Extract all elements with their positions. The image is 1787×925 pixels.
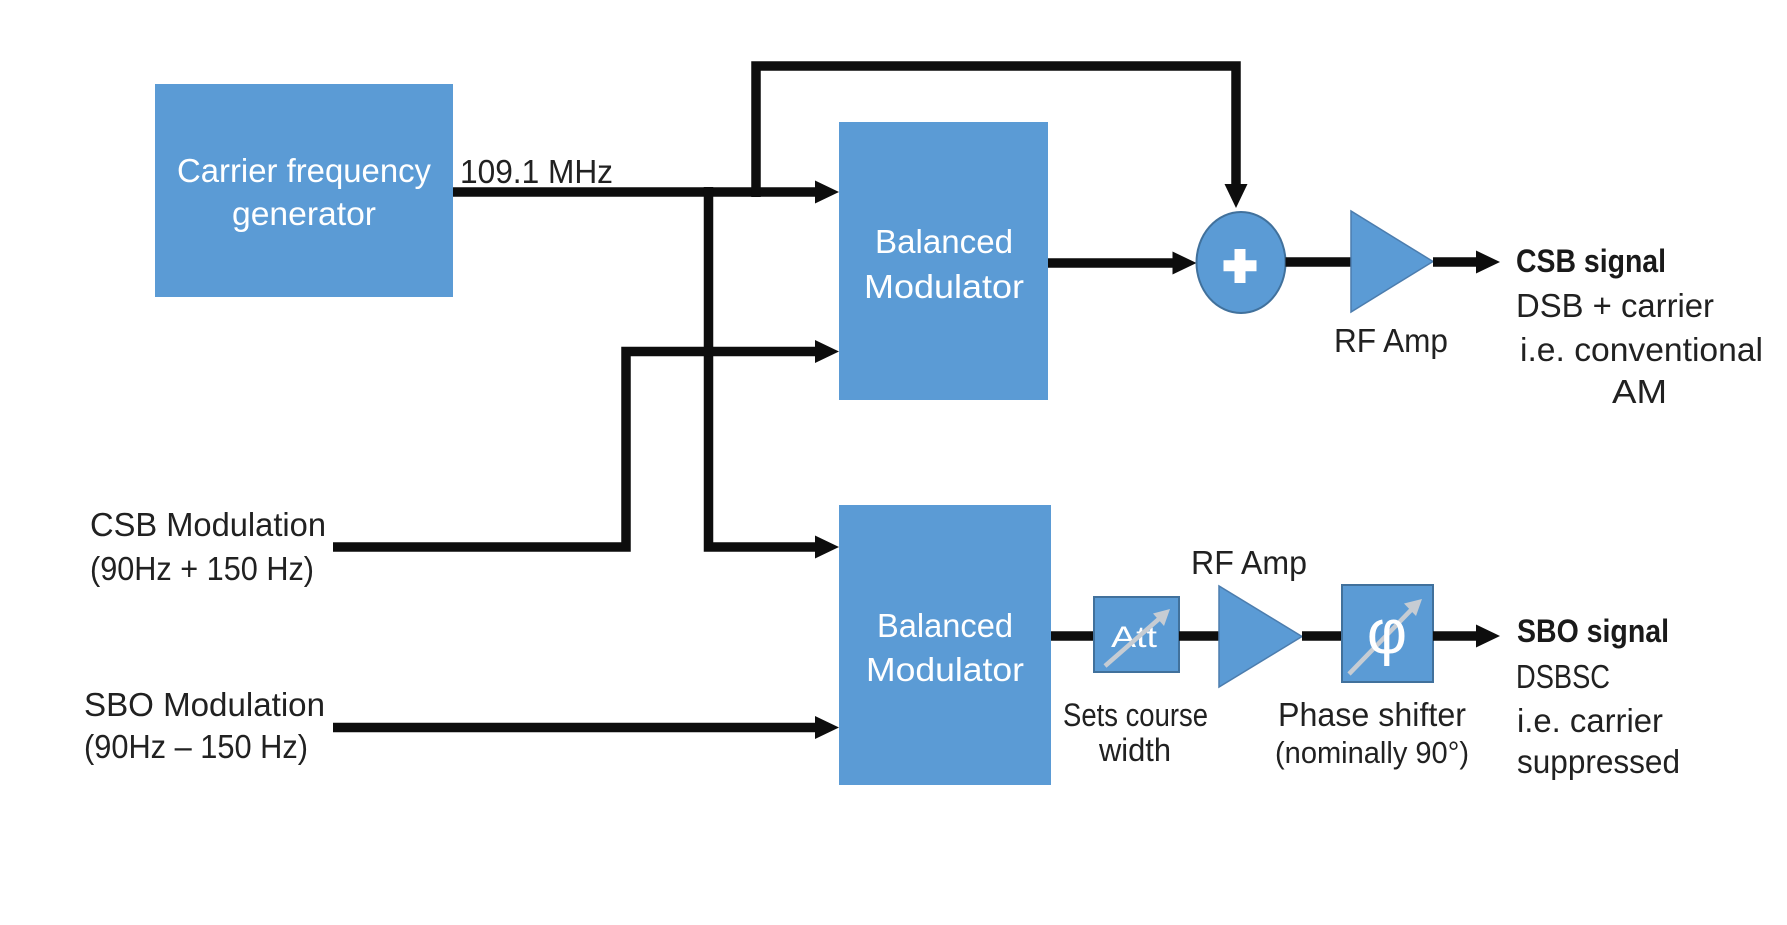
svg-text:Phase shifter: Phase shifter [1278, 696, 1466, 733]
wire: attenuator to RF amp 2 [1179, 631, 1221, 641]
wire: carrier feed-forward up and over to summer [756, 66, 1248, 208]
RF amp 1 triangle [1351, 211, 1433, 312]
block: balanced modulator 1 (CSB) [839, 122, 1048, 400]
wire: summer to RF amp 1 [1286, 257, 1354, 267]
svg-text:φ: φ [1367, 598, 1407, 667]
label Phase shifter [1275, 696, 1469, 770]
wire: balanced modulator 1 output to summer [1048, 252, 1197, 275]
RF amp 2 triangle [1219, 586, 1302, 687]
svg-text:RF Amp: RF Amp [1191, 544, 1307, 581]
svg-text:width: width [1098, 732, 1171, 768]
svg-text:(90Hz + 150 Hz): (90Hz + 150 Hz) [90, 550, 314, 587]
svg-text:DSBSC: DSBSC [1516, 658, 1610, 695]
svg-text:i.e. carrier: i.e. carrier [1517, 702, 1663, 739]
block: balanced modulator 2 (SBO) [839, 505, 1051, 785]
wire: RF amp 2 to phase shifter [1302, 631, 1346, 641]
svg-text:Balanced: Balanced [875, 223, 1013, 260]
svg-text:CSB Modulation: CSB Modulation [90, 506, 326, 543]
wire: CSB modulation input [333, 340, 839, 547]
phase shifter block (phi) [1342, 585, 1433, 682]
svg-text:DSB + carrier: DSB + carrier [1516, 287, 1714, 324]
svg-text:Balanced: Balanced [877, 607, 1013, 644]
wire: carrier output to balanced modulator 1 [453, 181, 839, 204]
label SBO Modulation input [84, 686, 325, 765]
label CSB Modulation input [90, 506, 326, 587]
svg-text:SBO Modulation: SBO Modulation [84, 686, 325, 723]
summer node (+) [1197, 212, 1286, 313]
svg-text:suppressed: suppressed [1517, 743, 1680, 780]
wire: junction down-branch to balanced modulator 2 input [709, 187, 840, 559]
wire: SBO modulation input [333, 716, 839, 739]
svg-text:RF Amp: RF Amp [1334, 322, 1448, 359]
svg-text:CSB signal: CSB signal [1516, 243, 1666, 279]
wire: RF amp 1 to CSB output [1433, 251, 1500, 274]
svg-text:109.1 MHz: 109.1 MHz [460, 153, 613, 190]
label SBO signal block [1516, 613, 1680, 780]
block: carrier frequency generator [155, 84, 453, 297]
svg-text:AM: AM [1612, 373, 1667, 410]
svg-text:i.e. conventional: i.e. conventional [1520, 331, 1763, 368]
svg-text:(90Hz – 150 Hz): (90Hz – 150 Hz) [84, 728, 308, 765]
label CSB signal block [1516, 243, 1763, 410]
svg-text:generator: generator [232, 195, 376, 232]
label Sets course width [1063, 697, 1208, 768]
wire: balanced modulator 2 output to attenuator [1051, 631, 1096, 641]
svg-text:Sets course: Sets course [1063, 697, 1208, 733]
svg-text:Carrier frequency: Carrier frequency [177, 152, 431, 189]
wire: phase shifter to SBO output [1433, 625, 1500, 648]
svg-text:Modulator: Modulator [866, 651, 1024, 688]
svg-text:Modulator: Modulator [864, 268, 1024, 305]
svg-text:(nominally 90°): (nominally 90°) [1275, 735, 1469, 770]
svg-text:SBO signal: SBO signal [1517, 613, 1669, 649]
attenuator block Att [1094, 597, 1179, 672]
